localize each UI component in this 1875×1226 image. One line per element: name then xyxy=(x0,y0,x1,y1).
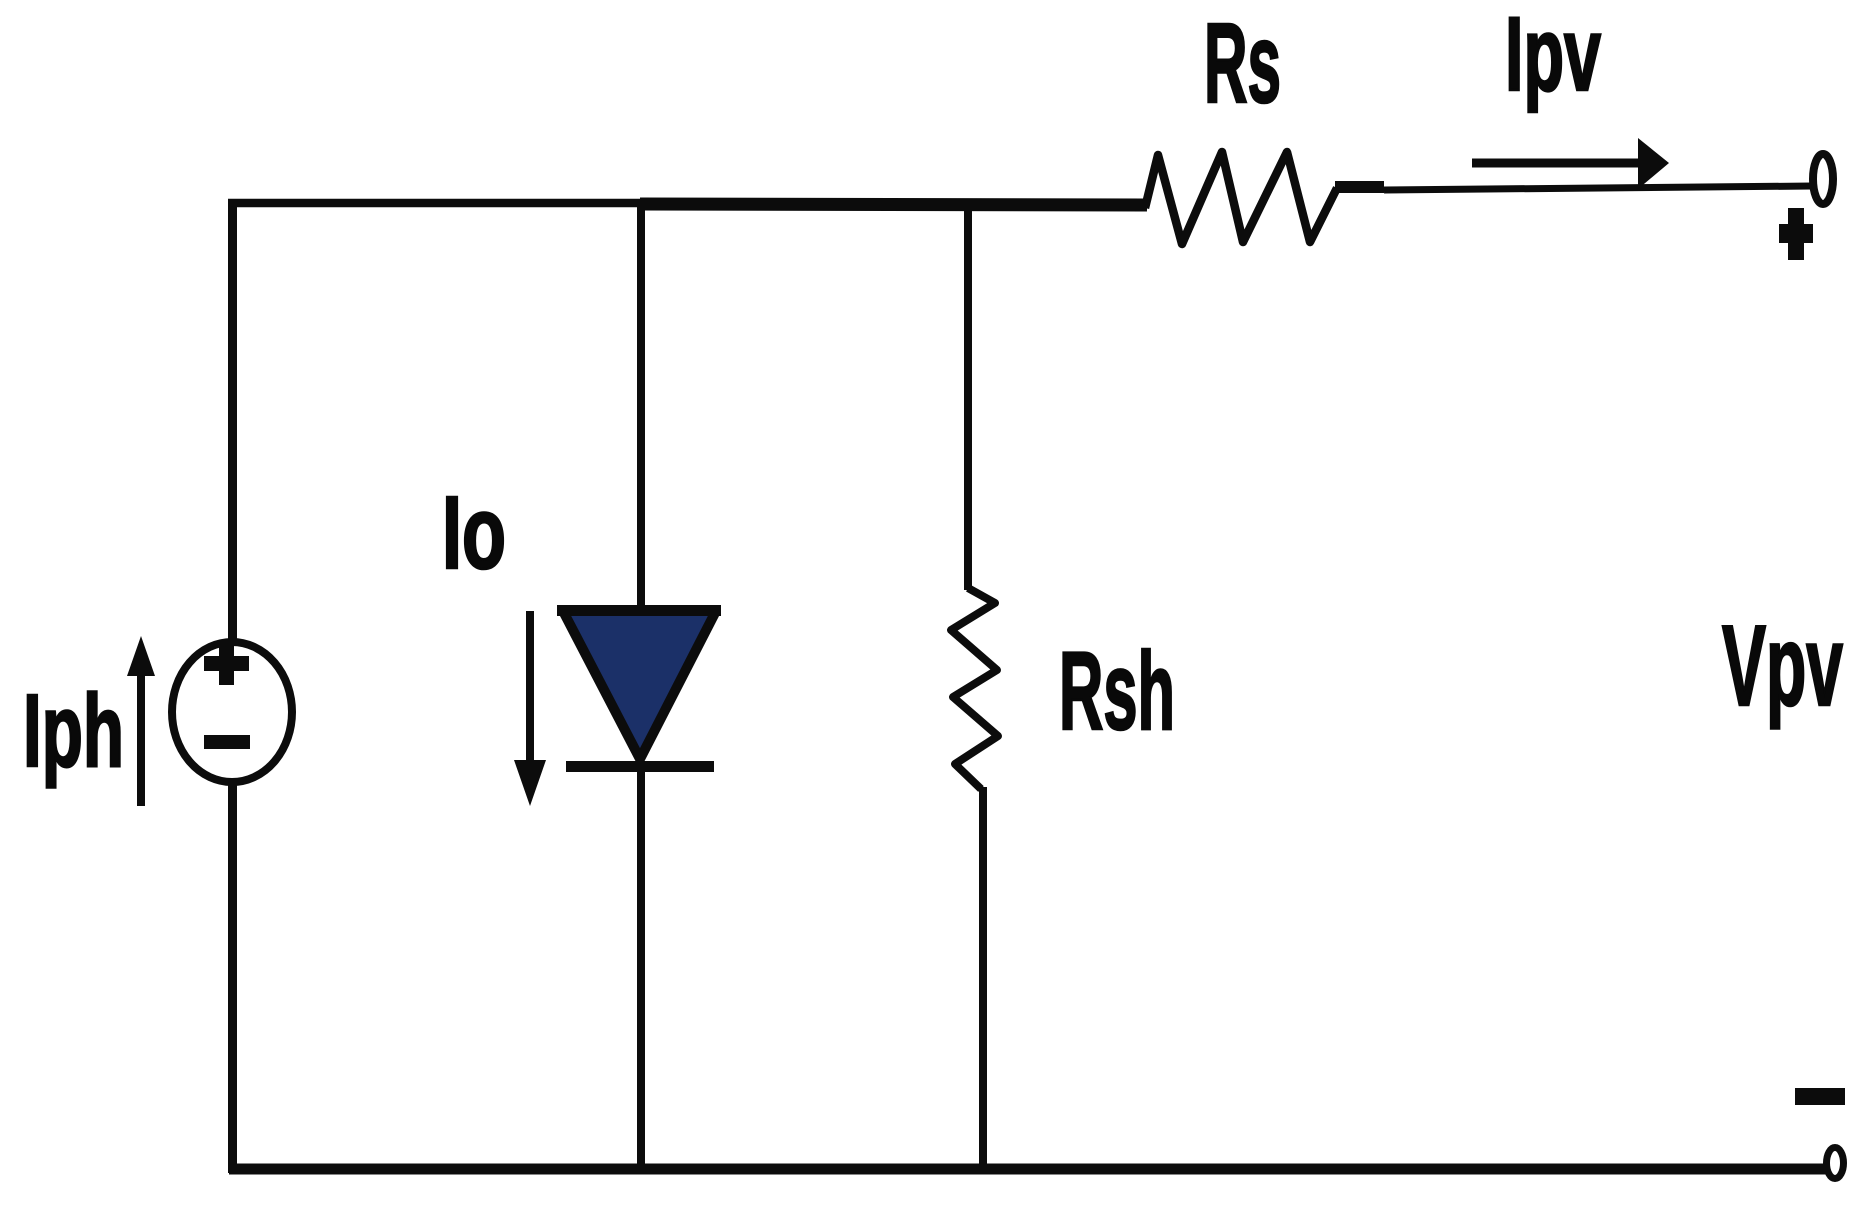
svg-text:Vpv: Vpv xyxy=(1722,603,1843,730)
svg-text:Io: Io xyxy=(442,475,506,590)
svg-text:Rs: Rs xyxy=(1204,0,1281,126)
svg-text:Rsh: Rsh xyxy=(1059,630,1175,753)
svg-text:Iph: Iph xyxy=(23,673,124,788)
svg-text:Ipv: Ipv xyxy=(1505,0,1601,113)
